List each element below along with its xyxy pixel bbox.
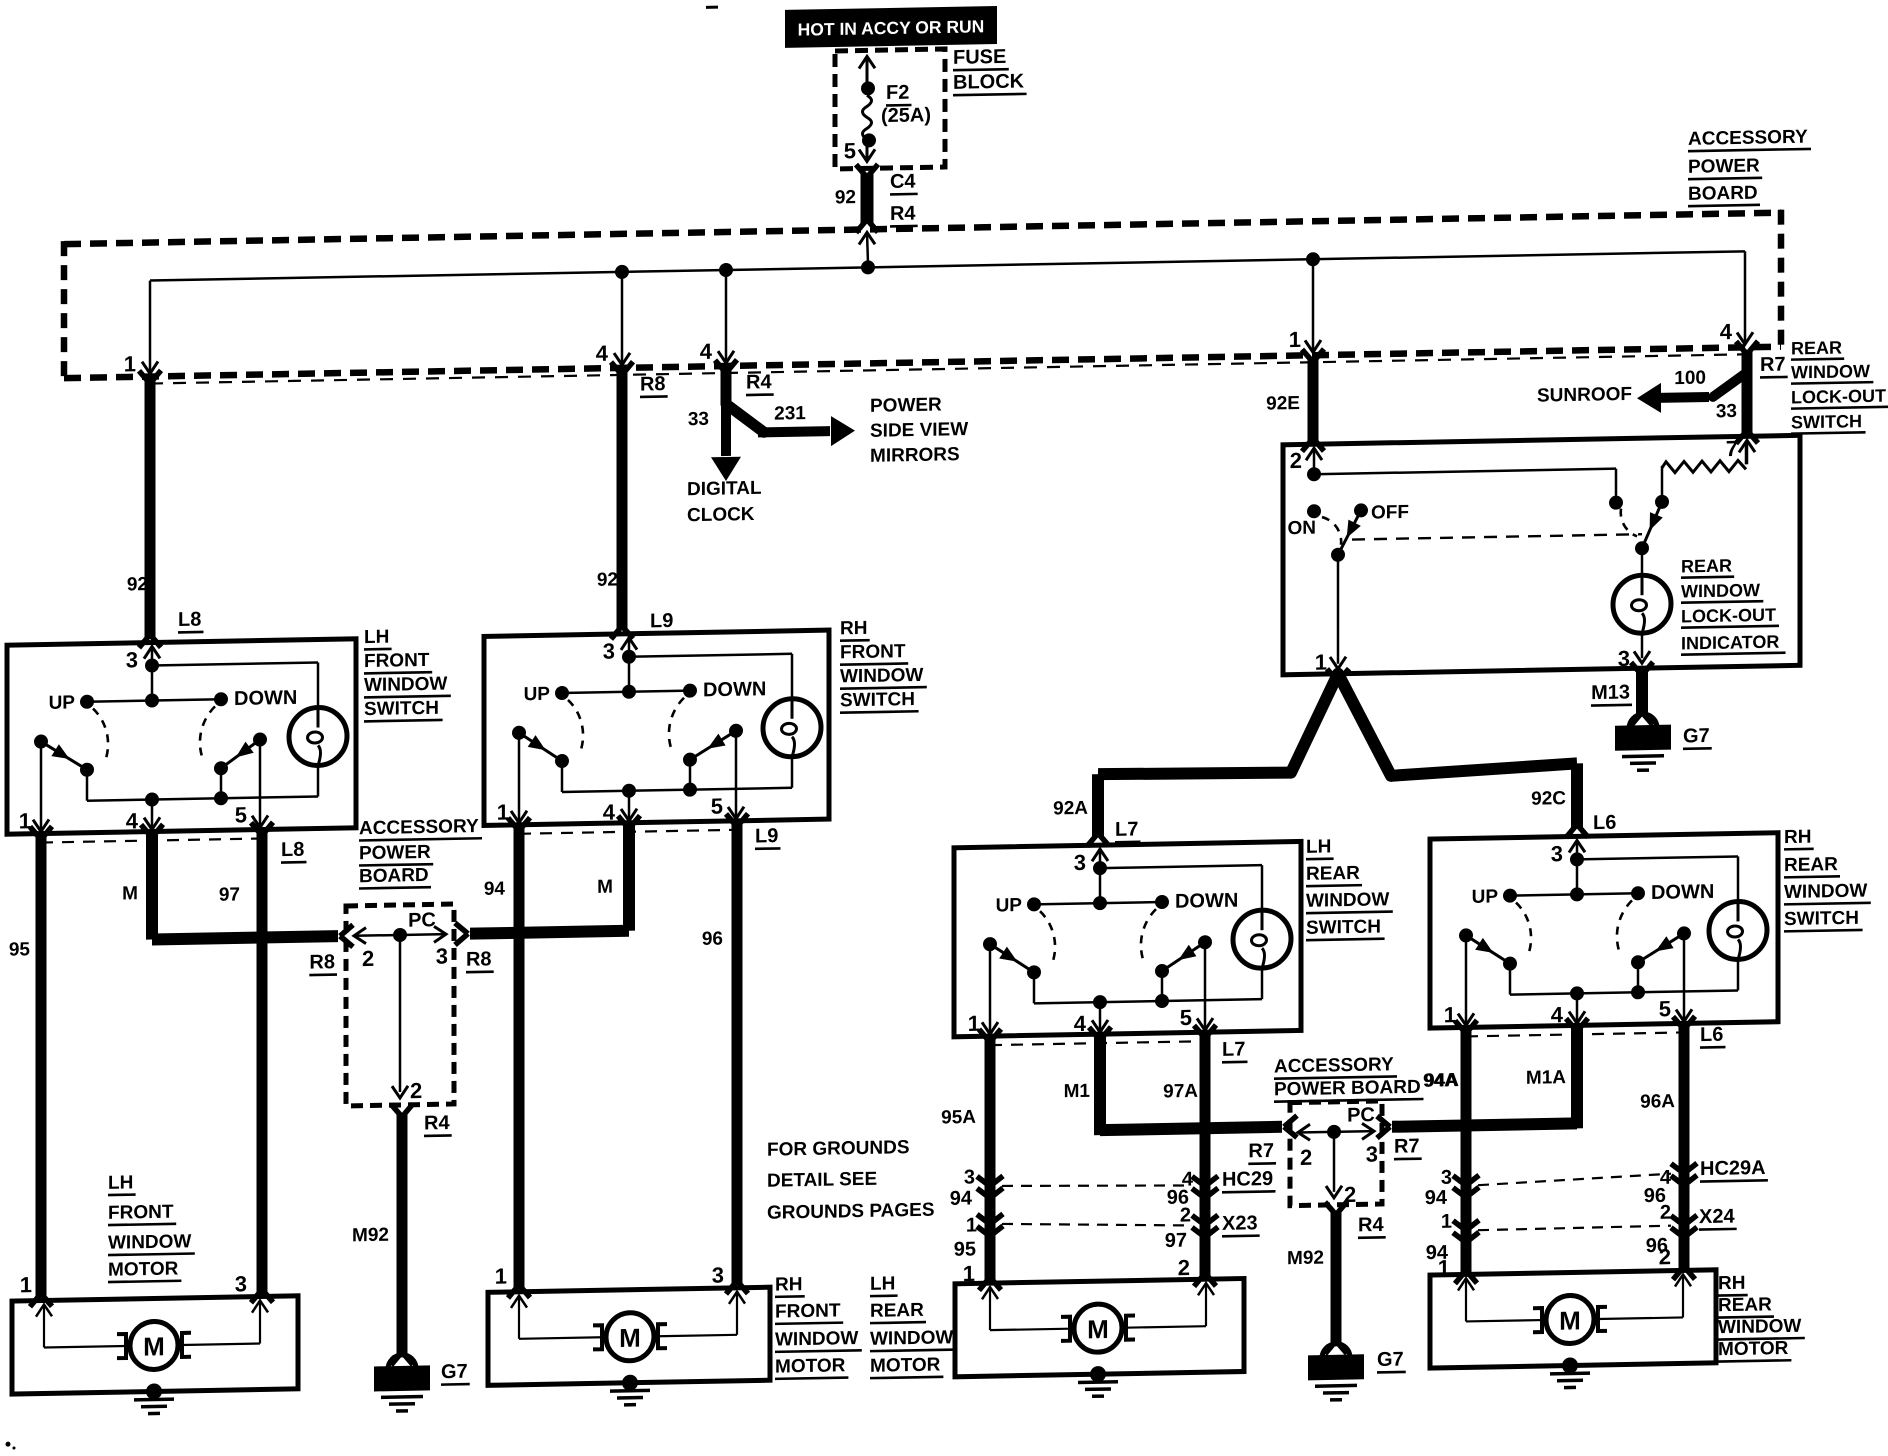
svg-text:3: 3 <box>1551 841 1563 866</box>
svg-text:231: 231 <box>774 403 806 425</box>
svg-text:WINDOW: WINDOW <box>840 665 923 688</box>
svg-text:POWER BOARD: POWER BOARD <box>1274 1077 1421 1101</box>
svg-text:M92: M92 <box>352 1225 389 1247</box>
svg-text:5: 5 <box>1180 1005 1192 1030</box>
svg-text:3: 3 <box>1074 850 1086 875</box>
svg-text:X23: X23 <box>1222 1212 1258 1235</box>
svg-text:(25A): (25A) <box>881 104 931 127</box>
svg-text:94: 94 <box>484 879 506 900</box>
svg-text:33: 33 <box>1716 401 1737 422</box>
svg-text:FOR GROUNDS: FOR GROUNDS <box>767 1137 909 1161</box>
svg-text:M1A: M1A <box>1526 1067 1566 1089</box>
svg-text:SIDE VIEW: SIDE VIEW <box>870 419 968 442</box>
svg-text:4: 4 <box>1551 1002 1564 1027</box>
svg-text:M: M <box>1559 1305 1581 1335</box>
svg-text:M: M <box>122 883 138 904</box>
svg-text:SWITCH: SWITCH <box>364 698 439 720</box>
svg-text:SWITCH: SWITCH <box>840 689 915 711</box>
svg-text:DOWN: DOWN <box>703 678 766 701</box>
svg-text:WINDOW: WINDOW <box>1681 580 1760 601</box>
svg-text:BOARD: BOARD <box>359 865 429 887</box>
svg-text:LH: LH <box>1306 836 1331 857</box>
svg-text:R8: R8 <box>640 373 666 395</box>
svg-text:POWER: POWER <box>1688 156 1760 178</box>
svg-text:BLOCK: BLOCK <box>953 71 1025 94</box>
svg-text:C4: C4 <box>890 171 916 193</box>
svg-text:M92: M92 <box>1287 1248 1324 1270</box>
svg-text:UP: UP <box>1472 886 1499 907</box>
svg-text:ACCESSORY: ACCESSORY <box>1274 1054 1394 1077</box>
svg-text:3: 3 <box>1441 1167 1452 1189</box>
svg-text:95: 95 <box>9 939 31 960</box>
svg-text:2: 2 <box>1180 1204 1191 1226</box>
svg-text:2: 2 <box>1659 1244 1671 1269</box>
svg-text:WINDOW: WINDOW <box>364 674 447 697</box>
svg-text:REAR: REAR <box>1784 854 1838 876</box>
svg-text:L7: L7 <box>1115 818 1138 840</box>
svg-text:R4: R4 <box>1358 1214 1384 1236</box>
svg-text:33: 33 <box>688 409 709 430</box>
svg-text:94A: 94A <box>1423 1070 1458 1092</box>
svg-text:M13: M13 <box>1591 681 1630 704</box>
svg-text:4: 4 <box>700 339 713 364</box>
svg-text:92: 92 <box>835 187 856 208</box>
svg-text:M1: M1 <box>1064 1081 1091 1102</box>
svg-text:MOTOR: MOTOR <box>870 1355 941 1377</box>
svg-text:1: 1 <box>124 351 136 376</box>
svg-text:R4: R4 <box>746 371 772 393</box>
svg-text:MOTOR: MOTOR <box>775 1355 846 1377</box>
svg-text:92A: 92A <box>1053 798 1088 820</box>
svg-text:94: 94 <box>950 1187 973 1209</box>
svg-text:SWITCH: SWITCH <box>1791 411 1862 432</box>
svg-text:96A: 96A <box>1640 1091 1675 1113</box>
svg-text:WINDOW: WINDOW <box>870 1327 953 1350</box>
svg-text:3: 3 <box>712 1263 724 1288</box>
svg-text:5: 5 <box>1659 996 1671 1021</box>
svg-text:L8: L8 <box>281 839 304 861</box>
svg-text:G7: G7 <box>441 1361 468 1383</box>
svg-text:97: 97 <box>1165 1230 1187 1252</box>
svg-text:FRONT: FRONT <box>108 1202 174 1224</box>
svg-text:RH: RH <box>1718 1273 1745 1295</box>
svg-text:MIRRORS: MIRRORS <box>870 444 960 467</box>
svg-text:M: M <box>619 1323 641 1353</box>
svg-text:L9: L9 <box>755 825 778 847</box>
svg-text:OFF: OFF <box>1371 502 1409 524</box>
svg-text:DOWN: DOWN <box>1651 881 1714 904</box>
svg-text:R8: R8 <box>309 951 335 973</box>
svg-text:FRONT: FRONT <box>775 1300 841 1322</box>
svg-text:R4: R4 <box>890 203 916 225</box>
svg-text:SUNROOF: SUNROOF <box>1537 384 1632 407</box>
svg-text:G7: G7 <box>1377 1349 1404 1371</box>
svg-text:M: M <box>143 1331 165 1361</box>
svg-text:WINDOW: WINDOW <box>1784 881 1867 904</box>
svg-text:3: 3 <box>964 1166 975 1188</box>
svg-text:CLOCK: CLOCK <box>687 504 755 526</box>
svg-text:ON: ON <box>1288 518 1316 540</box>
svg-text:LH: LH <box>870 1273 895 1294</box>
svg-text:REAR: REAR <box>1791 338 1842 359</box>
svg-text:LH: LH <box>364 627 389 648</box>
svg-text:5: 5 <box>235 802 247 827</box>
svg-text:FRONT: FRONT <box>840 641 906 663</box>
svg-text:HC29: HC29 <box>1222 1168 1273 1191</box>
svg-text:WINDOW: WINDOW <box>108 1231 191 1254</box>
svg-text:1: 1 <box>1289 327 1301 352</box>
svg-text:1: 1 <box>966 1214 977 1236</box>
svg-text:M: M <box>597 877 613 898</box>
svg-text:3: 3 <box>235 1271 247 1296</box>
svg-text:1: 1 <box>495 1264 507 1289</box>
svg-text:R7: R7 <box>1394 1135 1420 1157</box>
svg-text:3: 3 <box>126 647 138 672</box>
svg-text:LOCK-OUT: LOCK-OUT <box>1681 605 1776 627</box>
svg-text:1: 1 <box>20 1272 32 1297</box>
svg-text:LOCK-OUT: LOCK-OUT <box>1791 386 1886 408</box>
svg-text:R8: R8 <box>466 948 492 970</box>
svg-text:95: 95 <box>954 1238 976 1260</box>
svg-text:ACCESSORY: ACCESSORY <box>359 816 479 839</box>
svg-text:R4: R4 <box>424 1112 450 1134</box>
svg-text:94: 94 <box>1425 1187 1448 1209</box>
svg-text:3: 3 <box>436 944 448 969</box>
svg-text:L9: L9 <box>650 610 673 632</box>
svg-text:FUSE: FUSE <box>953 46 1006 69</box>
svg-text:4: 4 <box>1720 319 1733 344</box>
svg-text:WINDOW: WINDOW <box>1306 889 1389 912</box>
svg-text:RH: RH <box>1784 827 1811 849</box>
svg-text:PC: PC <box>408 909 436 932</box>
svg-text:3: 3 <box>1366 1142 1378 1167</box>
svg-text:ACCESSORY: ACCESSORY <box>1688 127 1808 150</box>
svg-text:92E: 92E <box>1266 393 1300 415</box>
svg-text:BOARD: BOARD <box>1688 183 1758 205</box>
svg-text:92: 92 <box>127 574 148 595</box>
svg-text:2: 2 <box>1290 448 1302 473</box>
svg-text:RH: RH <box>775 1274 802 1296</box>
svg-text:97A: 97A <box>1163 1081 1198 1103</box>
svg-text:UP: UP <box>524 684 551 705</box>
svg-text:R7: R7 <box>1760 354 1786 376</box>
svg-text:GROUNDS PAGES: GROUNDS PAGES <box>767 1200 935 1224</box>
svg-text:96: 96 <box>702 929 723 950</box>
svg-text:L7: L7 <box>1222 1038 1245 1060</box>
svg-text:WINDOW: WINDOW <box>1791 361 1870 382</box>
svg-text:G7: G7 <box>1683 725 1710 747</box>
svg-text:DIGITAL: DIGITAL <box>687 478 762 500</box>
svg-text:92C: 92C <box>1531 788 1566 810</box>
svg-text:F2: F2 <box>886 82 909 104</box>
svg-text:1: 1 <box>963 1261 975 1286</box>
svg-text:UP: UP <box>49 692 76 713</box>
svg-text:SWITCH: SWITCH <box>1306 916 1381 938</box>
svg-text:97: 97 <box>219 884 240 905</box>
svg-text:M: M <box>1087 1314 1109 1344</box>
svg-text:2: 2 <box>362 946 374 971</box>
svg-text:95A: 95A <box>941 1107 976 1129</box>
svg-text:HOT IN ACCY OR RUN: HOT IN ACCY OR RUN <box>798 16 985 39</box>
svg-text:MOTOR: MOTOR <box>1718 1338 1789 1360</box>
svg-text:POWER: POWER <box>870 395 942 417</box>
svg-text:1: 1 <box>1438 1255 1450 1280</box>
svg-text:SWITCH: SWITCH <box>1784 908 1859 930</box>
svg-text:REAR: REAR <box>870 1300 924 1322</box>
svg-text:R7: R7 <box>1248 1140 1274 1162</box>
svg-text:92: 92 <box>597 569 618 590</box>
svg-text:4: 4 <box>596 341 609 366</box>
svg-text:RH: RH <box>840 618 867 640</box>
svg-text:PC: PC <box>1347 1104 1375 1127</box>
svg-text:FRONT: FRONT <box>364 650 430 672</box>
svg-text:1: 1 <box>1441 1211 1452 1233</box>
svg-text:REAR: REAR <box>1718 1294 1772 1316</box>
svg-text:4: 4 <box>1074 1011 1087 1036</box>
svg-text:3: 3 <box>1618 646 1630 671</box>
svg-text:HC29A: HC29A <box>1700 1157 1766 1180</box>
svg-text:100: 100 <box>1674 368 1706 390</box>
svg-text:UP: UP <box>996 895 1023 916</box>
svg-text:7: 7 <box>1726 436 1738 461</box>
svg-text:4: 4 <box>603 800 616 825</box>
svg-text:2: 2 <box>1178 1255 1190 1280</box>
svg-text:2: 2 <box>410 1078 422 1103</box>
svg-text:DETAIL SEE: DETAIL SEE <box>767 1169 877 1192</box>
svg-text:MOTOR: MOTOR <box>108 1259 179 1281</box>
svg-text:REAR: REAR <box>1681 556 1732 577</box>
svg-text:2: 2 <box>1660 1202 1671 1224</box>
svg-text:DOWN: DOWN <box>1175 890 1238 913</box>
svg-text:DOWN: DOWN <box>234 687 297 710</box>
svg-text:L8: L8 <box>178 609 201 631</box>
svg-text:WINDOW: WINDOW <box>775 1328 858 1351</box>
svg-text:4: 4 <box>126 808 139 833</box>
svg-text:3: 3 <box>603 639 615 664</box>
svg-text:5: 5 <box>844 138 856 163</box>
svg-text:5: 5 <box>711 794 723 819</box>
svg-text:POWER: POWER <box>359 842 431 864</box>
svg-text:2: 2 <box>1300 1145 1312 1170</box>
svg-text:REAR: REAR <box>1306 863 1360 885</box>
svg-text:L6: L6 <box>1700 1024 1723 1046</box>
svg-text:LH: LH <box>108 1172 133 1193</box>
svg-text:X24: X24 <box>1699 1205 1735 1228</box>
svg-text:L6: L6 <box>1593 812 1616 834</box>
svg-text:INDICATOR: INDICATOR <box>1681 632 1779 654</box>
svg-text:WINDOW: WINDOW <box>1718 1316 1801 1339</box>
